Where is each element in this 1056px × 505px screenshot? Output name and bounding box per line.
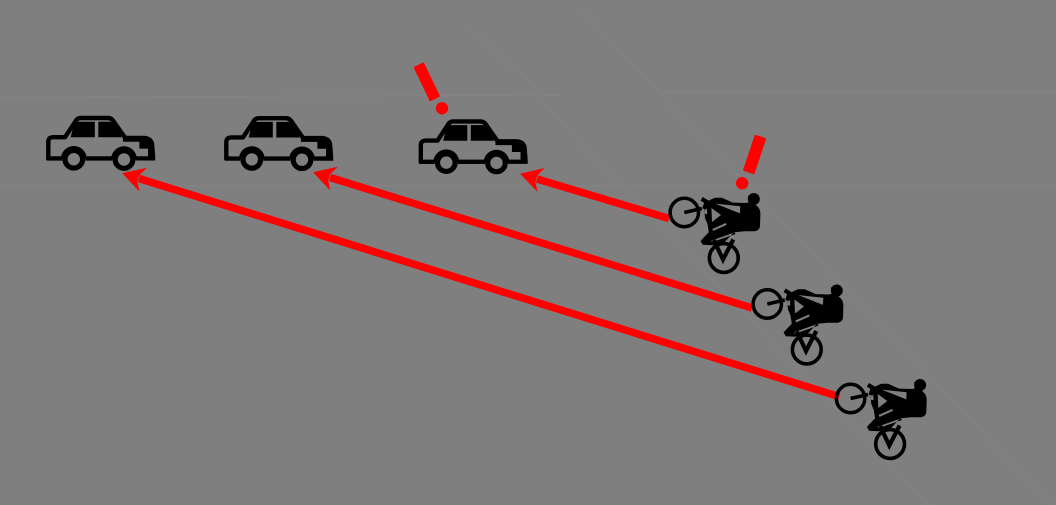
car 2	[224, 118, 333, 171]
faint diagonal line L1	[540, 100, 929, 505]
exclamation mark near cyclist 1 : bar	[743, 135, 766, 175]
exclamation mark near cyclist 1 : dot	[736, 177, 748, 189]
faint road line horizontal upper	[0, 95, 560, 98]
cyclist 3	[836, 379, 926, 458]
faint diagonal line D1	[579, 9, 660, 92]
arrow from cyclist 2 to car 2	[309, 160, 752, 308]
exclamation mark near car 3 : bar	[413, 62, 440, 101]
exclamation mark near car 3 : dot	[436, 102, 448, 114]
cyclist 2	[753, 285, 843, 364]
faint road line horizontal upper right	[660, 91, 1056, 94]
cyclist 1	[670, 193, 760, 272]
faint road line horizontal lower	[0, 185, 1056, 188]
car 3	[419, 121, 528, 174]
arrow from cyclist 1 to car 3	[517, 162, 669, 219]
faint diagonal line D2	[470, 29, 545, 95]
car 1	[46, 118, 155, 171]
arrow from cyclist 3 to car 1	[118, 161, 839, 396]
faint diagonal line L2	[660, 93, 1056, 505]
